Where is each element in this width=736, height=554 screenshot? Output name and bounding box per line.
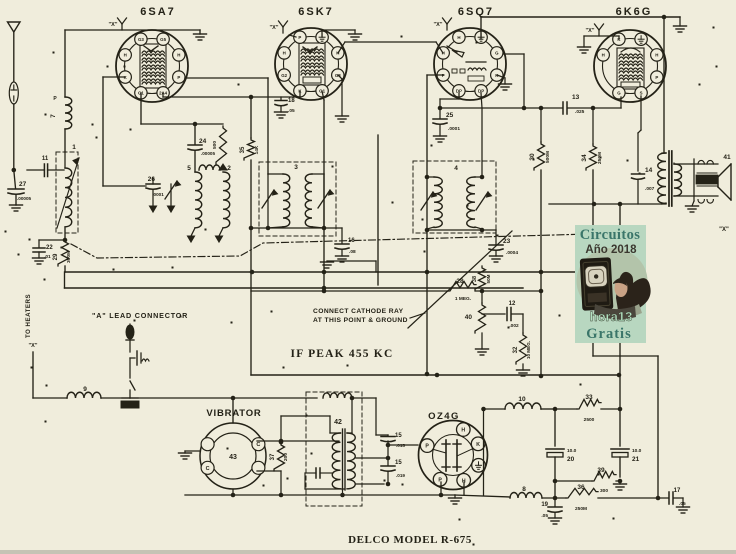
- wire choke to secondary: [351, 398, 353, 433]
- svg-text:250M: 250M: [575, 506, 587, 512]
- svg-text:S: S: [640, 90, 643, 95]
- svg-text:4: 4: [454, 165, 458, 172]
- svg-text:29: 29: [53, 253, 59, 260]
- dash-dot AVC line: [71, 234, 590, 258]
- svg-text:10.0: 10.0: [632, 448, 642, 454]
- svg-text:10: 10: [518, 396, 526, 403]
- svg-text:250M: 250M: [597, 152, 603, 164]
- wire left rail down: [102, 77, 104, 186]
- wire T2-5 bottom arrow: [191, 228, 195, 236]
- svg-text:H: H: [457, 35, 460, 40]
- svg-text:.00005: .00005: [17, 196, 31, 201]
- svg-text:P: P: [655, 75, 658, 80]
- wire 6SQ7 K ground: [497, 75, 505, 78]
- vibrator 43: [200, 423, 266, 489]
- svg-text:.002: .002: [509, 323, 519, 329]
- volume line: [377, 135, 379, 285]
- capacitor C16: [341, 228, 343, 243]
- svg-text:25: 25: [446, 112, 454, 119]
- IF3 right trimmer: [323, 174, 325, 228]
- svg-text:500M: 500M: [545, 151, 551, 163]
- wire 6SK7 top: [289, 35, 296, 37]
- svg-text:13: 13: [572, 94, 580, 101]
- svg-text:Circuitos: Circuitos: [580, 227, 641, 243]
- fuse in antenna lead: [9, 82, 18, 104]
- svg-text:"X": "X": [434, 22, 443, 28]
- wire A lead switch: [129, 358, 131, 378]
- node IF3 bottom left: [266, 226, 271, 231]
- capacitor C13: [562, 102, 564, 114]
- ground right of 6SK7 top: [321, 30, 323, 37]
- wire G3 6SK7 ground: [338, 75, 342, 79]
- svg-text:27: 27: [19, 181, 27, 188]
- svg-text:14: 14: [645, 167, 653, 174]
- svg-text:"X": "X": [109, 22, 118, 28]
- wire R29 to buses: [64, 266, 66, 272]
- coil T1: [64, 152, 66, 168]
- test point X near 6SA7: [121, 24, 123, 30]
- transformer bottom bar: [305, 488, 345, 490]
- wire from stamp left: [592, 343, 594, 356]
- resistor R31 500M: [216, 126, 227, 164]
- wire 6SQ7 G to diode load: [503, 53, 524, 55]
- resistor R38: [475, 266, 486, 291]
- svg-text:6K6G: 6K6G: [616, 6, 653, 18]
- fuse block: [122, 397, 138, 399]
- svg-text:.0001: .0001: [448, 126, 460, 132]
- svg-text:41: 41: [723, 154, 731, 161]
- filter rail: [483, 408, 505, 410]
- vacuum tube V1 6SA7: [116, 30, 188, 102]
- capacitor C17: [658, 497, 668, 499]
- svg-text:28: 28: [456, 278, 464, 285]
- transformer T4 secondary: [347, 433, 355, 489]
- node IF4 top left: [425, 175, 430, 180]
- wire DP2 to IF4: [481, 108, 483, 177]
- wire G1 6SK7 down: [322, 91, 324, 100]
- svg-text:1 MEG.: 1 MEG.: [455, 296, 471, 302]
- svg-text:P: P: [298, 35, 301, 40]
- capacitor C26: [146, 183, 160, 185]
- output transformer T3 secondary: [674, 164, 682, 196]
- svg-text:32: 32: [513, 346, 519, 353]
- svg-text:10 MEG.: 10 MEG.: [526, 341, 531, 359]
- vacuum tube V3 6SQ7: [434, 28, 506, 100]
- wire stamp feeds top: [619, 204, 621, 225]
- wire OZ4G P left: [388, 444, 418, 446]
- IF3 primary coil: [268, 173, 283, 175]
- wire DP right drop: [481, 93, 482, 108]
- svg-text:43: 43: [229, 454, 237, 461]
- svg-text:2500: 2500: [584, 417, 595, 423]
- choke L8: [510, 493, 542, 499]
- svg-text:18: 18: [288, 98, 295, 104]
- svg-text:15: 15: [395, 460, 402, 466]
- svg-text:TO HEATERS: TO HEATERS: [25, 294, 32, 338]
- oscillator coil T2 secondary 2: [223, 172, 230, 228]
- dashed IF transformer box 4: [413, 161, 496, 233]
- A lead plug: [126, 325, 134, 339]
- speaker 41 frame: [674, 163, 694, 165]
- svg-text:DELCO MODEL R-675: DELCO MODEL R-675: [348, 534, 472, 546]
- svg-text:.01: .01: [44, 254, 51, 260]
- svg-text:37: 37: [270, 453, 276, 460]
- svg-text:300: 300: [600, 488, 608, 494]
- svg-text:35: 35: [240, 146, 246, 153]
- svg-text:G: G: [617, 90, 621, 95]
- diode load wire y108: [440, 107, 562, 109]
- svg-text:10.0: 10.0: [567, 448, 577, 454]
- wire OZ4G cathode riser: [483, 409, 485, 495]
- svg-text:15: 15: [395, 433, 402, 439]
- IF4 primary coil: [427, 176, 434, 178]
- wire OZ4G P bottom: [440, 482, 442, 495]
- wire 6K6G G: [620, 97, 622, 108]
- svg-text:26: 26: [148, 176, 156, 183]
- line AVC with R28: [251, 290, 448, 292]
- dashed box power transformer: [306, 392, 362, 506]
- svg-text:hora13: hora13: [590, 309, 633, 324]
- wire from stamp right: [619, 343, 621, 409]
- resistor R35 on line: [250, 97, 252, 138]
- wire T2-2 bottom arrow: [219, 228, 223, 236]
- transformer secondary taps: [356, 457, 388, 459]
- wire 6SA7 H to left rail: [103, 76, 125, 78]
- svg-text:P: P: [425, 444, 429, 450]
- capacitor C15a: [387, 435, 389, 436]
- wire rail to C26: [103, 185, 146, 187]
- svg-text:"X": "X": [719, 227, 729, 233]
- resistor R37: [274, 443, 285, 471]
- wire 6SQ7 top to bus: [480, 17, 482, 39]
- svg-text:38: 38: [472, 276, 478, 282]
- wire plate 6SA7 to 6SK7: [185, 77, 268, 79]
- svg-text:30: 30: [529, 153, 536, 161]
- capacitor C15b: [381, 465, 395, 467]
- wire T1 bottom: [64, 228, 66, 240]
- capacitor C18: [280, 97, 282, 100]
- wire DP left drop: [458, 93, 460, 99]
- svg-text:C: C: [256, 442, 260, 448]
- svg-text:6SQ7: 6SQ7: [458, 6, 494, 18]
- svg-text:K: K: [476, 442, 480, 448]
- svg-text:"A" LEAD CONNECTOR: "A" LEAD CONNECTOR: [92, 311, 188, 320]
- svg-text:1: 1: [72, 144, 76, 151]
- svg-text:Gratis: Gratis: [586, 326, 631, 342]
- capacitor C23: [495, 230, 497, 244]
- capacitor C25: [439, 108, 441, 118]
- oscillator coil T2 primary 5: [195, 172, 202, 228]
- svg-text:.05: .05: [679, 501, 686, 507]
- wire vib to transformer: [281, 440, 339, 442]
- svg-text:40: 40: [465, 314, 473, 321]
- rectifier tube OZ4G: [419, 421, 488, 490]
- heater rail bottom: [455, 495, 510, 497]
- antenna: [8, 22, 21, 32]
- wire A lead down: [129, 340, 131, 352]
- svg-text:11: 11: [42, 156, 49, 162]
- wire choke to caps: [375, 398, 377, 435]
- capacitor C27 to ground: [14, 170, 16, 188]
- promotional stamp Circuitos hora13: [575, 225, 651, 343]
- svg-text:6SA7: 6SA7: [140, 6, 176, 18]
- svg-text:"X": "X": [29, 343, 38, 349]
- svg-text:H: H: [283, 51, 286, 56]
- buffer choke: [323, 393, 352, 398]
- svg-text:G5: G5: [160, 37, 166, 42]
- svg-text:.08: .08: [349, 249, 356, 255]
- transformer T4 primary: [332, 433, 340, 489]
- wire R36 right: [598, 497, 658, 499]
- svg-text:.019: .019: [396, 473, 405, 478]
- wire 6K6G S down: [640, 96, 642, 130]
- dashed shield box 1: [56, 152, 78, 233]
- svg-text:.0001: .0001: [152, 192, 164, 197]
- rail under OPT: [549, 203, 666, 205]
- wire heater top: [65, 29, 200, 31]
- output transformer T3 core: [668, 151, 670, 206]
- speaker 41 cone: [718, 164, 731, 177]
- ground at 6SA7 top right: [199, 30, 201, 34]
- coupling loops T2 top: [199, 165, 220, 170]
- vibrator left ground: [185, 450, 200, 452]
- wire vib right top: [257, 440, 281, 442]
- svg-text:50M: 50M: [486, 274, 491, 283]
- svg-text:34: 34: [581, 154, 588, 162]
- svg-text:IF PEAK 455 KC: IF PEAK 455 KC: [291, 348, 394, 360]
- coil L9: [33, 397, 67, 399]
- capacitor C11: [27, 169, 44, 171]
- node antenna junction: [12, 168, 17, 173]
- resistor R29: [58, 240, 69, 266]
- svg-text:9: 9: [83, 386, 87, 393]
- svg-text:AT THIS POINT & GROUND: AT THIS POINT & GROUND: [313, 317, 408, 324]
- test point X near 6SK7: [282, 27, 284, 33]
- wire antenna down: [13, 104, 15, 170]
- svg-text:H: H: [124, 53, 127, 58]
- wire 2A4 pin right: [162, 93, 164, 97]
- svg-text:21: 21: [632, 456, 640, 463]
- IF4 right trimmer: [476, 192, 488, 210]
- wire vib to primary: [280, 416, 282, 442]
- coil L7: [64, 30, 66, 97]
- svg-text:H: H: [177, 53, 180, 58]
- svg-text:"X": "X": [270, 25, 279, 31]
- resistor R32: [522, 314, 524, 333]
- vibrator bottom wire: [232, 489, 234, 495]
- svg-text:24: 24: [199, 138, 207, 145]
- wire y124: [141, 123, 223, 125]
- svg-text:G: G: [495, 51, 499, 56]
- svg-text:20: 20: [567, 456, 575, 463]
- capacitor C22: [39, 239, 65, 241]
- wire K pin 6SK7: [299, 91, 301, 97]
- top bus wire: [481, 16, 680, 18]
- IF3 secondary coil: [312, 173, 324, 175]
- svg-text:H: H: [602, 53, 605, 58]
- svg-text:3: 3: [294, 164, 298, 171]
- wire C20 down: [554, 481, 556, 498]
- node IF4 top right: [480, 175, 485, 180]
- bus B+ lower: [65, 287, 524, 289]
- capacitor C14: [632, 173, 645, 175]
- svg-text:5: 5: [187, 165, 191, 172]
- svg-text:42: 42: [334, 419, 342, 426]
- test point X near 6SQ7: [446, 24, 448, 30]
- svg-text:H: H: [461, 428, 465, 434]
- wire A feed right: [130, 397, 317, 399]
- svg-text:6SK7: 6SK7: [298, 6, 334, 18]
- svg-text:C: C: [206, 466, 210, 472]
- svg-text:P: P: [177, 75, 180, 80]
- svg-text:39: 39: [597, 467, 605, 474]
- svg-text:"X": "X": [586, 28, 595, 34]
- svg-text:P: P: [438, 477, 442, 483]
- ground top right: [662, 15, 667, 20]
- resistor R33: [577, 399, 601, 409]
- capacitor C19: [554, 498, 556, 506]
- svg-text:H: H: [655, 53, 658, 58]
- ground stub on bus: [375, 261, 377, 272]
- svg-text:19: 19: [541, 502, 548, 508]
- wire 6SQ7 P drop: [427, 74, 443, 76]
- resistor R36: [566, 488, 598, 498]
- ground bottom rail: [454, 495, 456, 498]
- ground under speaker: [692, 201, 694, 206]
- svg-text:2: 2: [227, 165, 231, 172]
- chassis box bottom rail: [251, 374, 620, 376]
- svg-text:.025: .025: [575, 109, 585, 115]
- wire R33 to C21: [601, 408, 620, 410]
- svg-text:7: 7: [50, 114, 57, 118]
- IF3 left trimmer: [267, 174, 269, 228]
- IF4 secondary coil: [475, 176, 482, 178]
- diagonal pointer line: [408, 231, 512, 328]
- svg-text:G2: G2: [281, 73, 287, 78]
- wire 6K6G P to OPT: [663, 17, 665, 153]
- electrolytic C20: [554, 409, 556, 446]
- resistor R39: [555, 480, 592, 482]
- svg-text:12: 12: [509, 301, 516, 307]
- resistor R34: [592, 108, 594, 144]
- transformer T4 core: [342, 429, 344, 490]
- dashed IF transformer box 3: [259, 162, 336, 236]
- wire OZ4G H bottom: [463, 482, 465, 495]
- svg-text:Año 2018: Año 2018: [585, 244, 637, 256]
- resistor R40: [481, 291, 483, 303]
- capacitor C24: [194, 124, 196, 144]
- svg-text:.05: .05: [541, 513, 548, 519]
- svg-text:G3: G3: [138, 37, 144, 42]
- bottom rail vibrator: [185, 494, 455, 496]
- wire heater drop: [32, 352, 34, 398]
- svg-text:33: 33: [585, 394, 593, 401]
- vacuum tube V2 6SK7: [275, 28, 347, 100]
- svg-text:36: 36: [577, 484, 585, 491]
- IF4 left trimmer: [421, 192, 433, 210]
- trimmer capacitor on C26: [170, 184, 172, 206]
- svg-text:VIBRATOR: VIBRATOR: [206, 408, 261, 419]
- svg-text:200: 200: [283, 453, 289, 461]
- svg-text:500: 500: [212, 141, 218, 149]
- electrolytic C21: [619, 409, 621, 446]
- test point X near 6K6G: [598, 30, 600, 36]
- ground under C21: [619, 481, 621, 484]
- svg-text:17: 17: [674, 488, 681, 494]
- node IF3 bottom right: [322, 226, 327, 231]
- svg-text:CONNECT CATHODE RAY: CONNECT CATHODE RAY: [313, 308, 404, 315]
- wire 6SK7 H to 6SQ7: [338, 42, 345, 53]
- svg-text:14K: 14K: [254, 145, 260, 154]
- svg-text:.0004: .0004: [506, 250, 518, 256]
- capacitor C44 buffer: [315, 468, 317, 478]
- svg-text:300M: 300M: [66, 251, 72, 263]
- wire K 6K6G: [618, 36, 620, 39]
- capacitor C12: [482, 313, 505, 315]
- wire rail to R33: [555, 408, 577, 410]
- wire vib right bottom: [257, 470, 281, 472]
- vacuum tube V4 6K6G: [594, 30, 666, 102]
- svg-text:22: 22: [46, 245, 53, 251]
- vibrator top wire: [232, 398, 234, 423]
- choke L10: [505, 403, 541, 409]
- svg-text:8: 8: [522, 486, 526, 493]
- svg-text:.05: .05: [288, 108, 295, 114]
- variable arrow through T1: [57, 158, 79, 228]
- bus B+ upper: [65, 271, 593, 273]
- output transformer T3 primary: [658, 153, 666, 203]
- resistor R30: [540, 108, 542, 142]
- fuse clip: [130, 357, 135, 359]
- IF4 bottom rail: [427, 229, 496, 231]
- wire G1 drop: [140, 93, 142, 124]
- speaker 41 voice coil: [696, 175, 718, 184]
- svg-text:.00005: .00005: [201, 151, 215, 156]
- svg-text:.007: .007: [645, 186, 655, 192]
